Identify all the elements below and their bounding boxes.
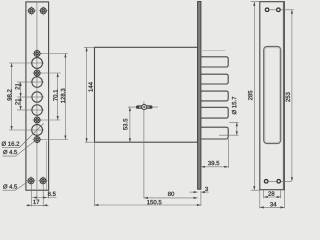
dim 8.5 [31, 192, 56, 199]
faceplate fold line [46, 141, 48, 190]
bottom extension lines faceplate [31, 185, 48, 207]
dim 34 [260, 202, 285, 208]
label D16.2 with leader [2, 124, 44, 148]
dim 21 lower [15, 97, 21, 110]
dim 70.1 [53, 73, 59, 120]
strike extension lines [251, 2, 285, 209]
dim 21 upper [15, 82, 21, 97]
dim 28 [264, 191, 281, 198]
bolt5 inner line [219, 134, 239, 136]
screw bottom-left [26, 176, 35, 185]
screw hole A [33, 49, 42, 58]
dim 128.3 [61, 54, 67, 140]
bolt 2 [201, 74, 228, 84]
screw hole C [33, 68, 42, 77]
strike plate right edge shade [283, 2, 285, 189]
faceplate edge bar side view [198, 2, 201, 190]
lock body side view [95, 47, 198, 142]
strike top holes centerline [265, 9, 294, 11]
label D4.5 upper with leader [3, 138, 39, 156]
dim D15.7 [229, 97, 238, 135]
dim 253 [286, 10, 293, 182]
faceplate front view [26, 2, 49, 190]
strike hole top-right [277, 8, 281, 12]
hole F [32, 105, 43, 116]
extension lines right [41, 54, 69, 140]
faint guide line [201, 50, 226, 52]
extension line bar bottom [200, 191, 202, 206]
dim 53.5 [123, 107, 131, 142]
screw bottom-right [38, 176, 47, 185]
body extension lines [84, 47, 95, 206]
dim 39.5 [201, 139, 228, 168]
faceplate centerline [36, 2, 38, 199]
hole centerlines [31, 63, 45, 130]
strike hole bottom-left [264, 179, 268, 183]
hole B [32, 58, 43, 69]
strike hole top-left [265, 8, 269, 12]
hole H [32, 125, 43, 136]
screw top-right [39, 6, 48, 15]
strike plate [260, 2, 285, 190]
bolt 1 [201, 57, 228, 67]
hole E [32, 92, 42, 102]
bolt 4 [201, 107, 228, 118]
dim 3 [190, 187, 209, 193]
dim 98.2 [7, 63, 12, 130]
cam spindle [136, 105, 153, 110]
hole D [32, 77, 43, 88]
dim 17 [26, 200, 49, 207]
bolt 5 [201, 127, 228, 139]
strike hole bottom-right [277, 179, 281, 183]
label D4.5 lower with leader [3, 181, 29, 190]
dim 285 [248, 2, 255, 191]
screw top-left [27, 6, 36, 15]
strike bottom holes centerline [264, 180, 292, 182]
extension lines left [9, 63, 32, 130]
cam centerlines [128, 102, 158, 199]
dim 144 [86, 47, 93, 142]
dim 80 [144, 192, 198, 199]
screw hole G [33, 115, 42, 124]
bolt 3 [201, 91, 228, 101]
strike slot [264, 47, 281, 144]
screw hole I [33, 135, 42, 144]
dim 150.5 [94, 200, 200, 206]
